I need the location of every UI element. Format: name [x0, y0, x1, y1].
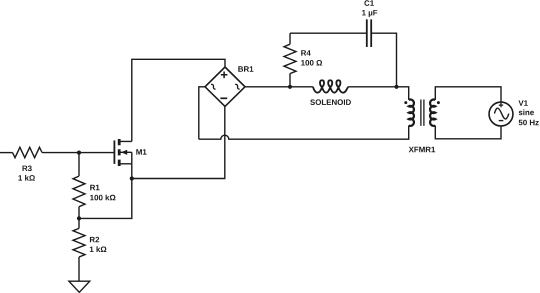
capacitor C1 [367, 19, 371, 47]
wire secondary bottom to V1 bottom [435, 126, 501, 139]
resistor R4 [284, 33, 296, 87]
source V1 [489, 102, 513, 126]
wire solenoid to node E [348, 86, 396, 88]
ground [69, 281, 90, 292]
label M1 [136, 149, 146, 154]
wire source down [131, 164, 133, 179]
label XFMR1 [409, 147, 436, 152]
XFMR1 secondary phase dot [437, 101, 440, 104]
wire bridge right to solenoid [245, 86, 313, 88]
V1 minus mark [499, 120, 504, 122]
label V1 [519, 100, 528, 105]
resistor R2 [73, 218, 85, 281]
label BR1 [238, 66, 253, 71]
wire input to R3 [0, 152, 13, 154]
label C1 [364, 0, 374, 6]
wire C1 to node E [371, 33, 396, 87]
XFMR1 secondary winding [430, 100, 435, 126]
inductor SOLENOID [313, 80, 348, 92]
wire node B to bridge bottom [132, 106, 225, 178]
wire node A to gate [79, 152, 114, 154]
label SOLENOID [310, 99, 351, 105]
label R1 [90, 185, 99, 190]
node B junction [130, 176, 134, 180]
XFMR1 primary winding [409, 99, 414, 125]
wire R3 to node A [42, 152, 79, 154]
BR1 ac mark right [235, 84, 240, 90]
wire drain to bridge top [132, 59, 225, 141]
wire node E to primary top [397, 87, 409, 100]
wire R4 top to C1 [290, 32, 367, 34]
wire secondary top to V1 [435, 87, 501, 102]
node A junction [77, 151, 81, 155]
V1 plus mark [499, 103, 503, 107]
transistor M1 [114, 139, 131, 166]
BR1 minus mark [220, 97, 227, 99]
BR1 ac mark left [211, 84, 216, 90]
resistor R3 [13, 147, 43, 157]
resistor R1 [73, 153, 85, 219]
node C junction [77, 216, 81, 220]
label R4 [301, 50, 311, 55]
XFMR1 primary phase dot [404, 101, 407, 104]
node E junction [394, 85, 398, 89]
bridge rectifier BR1 [205, 67, 245, 106]
bottom rail with hop [199, 126, 409, 140]
node D junction [288, 85, 292, 89]
label R3 [23, 166, 32, 172]
wire bridge left down [199, 87, 205, 139]
V1 sine wave [494, 108, 508, 119]
wire node B down to node C [79, 179, 132, 219]
XFMR1 core [421, 100, 424, 126]
BR1 plus mark [221, 72, 228, 79]
label R2 [90, 237, 99, 243]
